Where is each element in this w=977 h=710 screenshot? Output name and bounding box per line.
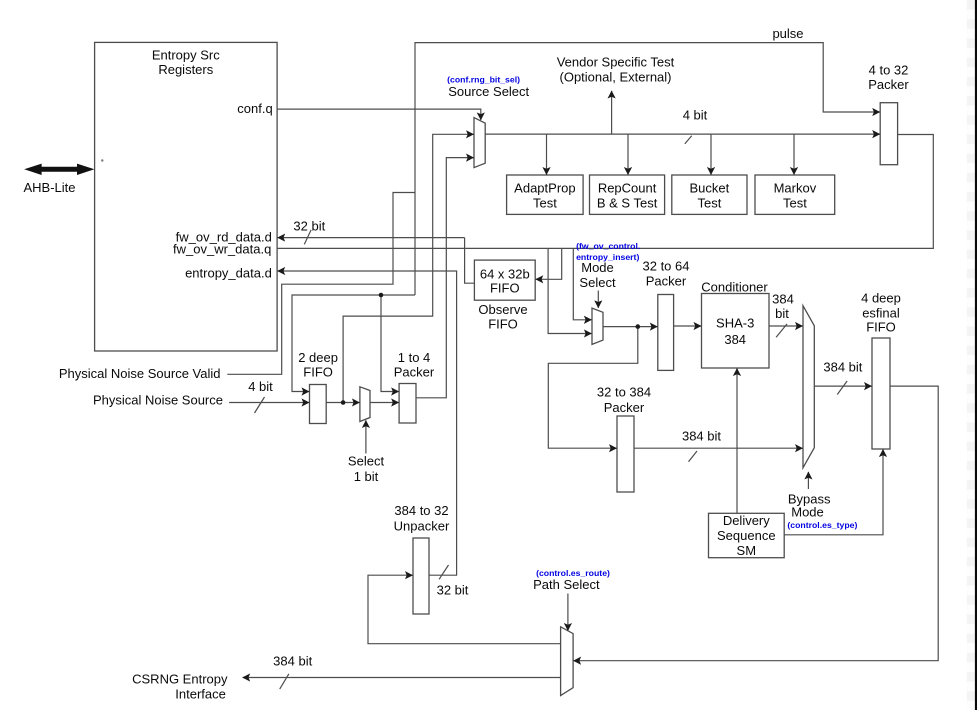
svg-text:Test: Test (533, 196, 557, 211)
svg-text:FIFO: FIFO (303, 365, 333, 380)
svg-text:1 to 4: 1 to 4 (398, 350, 431, 365)
svg-text:384 to 32: 384 to 32 (394, 503, 448, 518)
svg-text:4 bit: 4 bit (248, 379, 273, 394)
svg-text:Select: Select (348, 454, 385, 469)
svg-text:Registers: Registers (158, 62, 213, 77)
svg-text:Source Select: Source Select (448, 84, 529, 99)
svg-text:fw_ov_wr_data.q: fw_ov_wr_data.q (173, 242, 271, 257)
svg-text:(control.es_type): (control.es_type) (787, 520, 857, 530)
svg-text:FIFO: FIFO (490, 280, 520, 295)
svg-text:384 bit: 384 bit (273, 654, 312, 669)
svg-text:RepCount: RepCount (598, 181, 657, 196)
svg-text:Conditioner: Conditioner (701, 280, 768, 295)
svg-text:B & S Test: B & S Test (597, 196, 658, 211)
svg-text:32 to 64: 32 to 64 (643, 259, 690, 274)
svg-text:32 bit: 32 bit (437, 583, 469, 598)
svg-text:FIFO: FIFO (866, 320, 896, 335)
svg-text:32 bit: 32 bit (293, 219, 325, 234)
svg-text:Sequence: Sequence (717, 528, 776, 543)
svg-text:1 bit: 1 bit (354, 469, 379, 484)
svg-text:4 bit: 4 bit (683, 108, 708, 123)
svg-text:384 bit: 384 bit (823, 360, 862, 375)
svg-text:(fw_ov_control.: (fw_ov_control. (576, 241, 640, 251)
svg-text:Test: Test (783, 196, 807, 211)
svg-text:Packer: Packer (868, 77, 909, 92)
svg-text:4 to 32: 4 to 32 (869, 63, 909, 78)
svg-text:bit: bit (775, 306, 789, 321)
svg-text:Test: Test (697, 196, 721, 211)
svg-text:pulse: pulse (772, 26, 803, 41)
svg-text:2 deep: 2 deep (298, 350, 338, 365)
svg-text:32 to 384: 32 to 384 (597, 385, 651, 400)
svg-text:SHA-3: SHA-3 (716, 316, 754, 331)
svg-text:Select: Select (579, 275, 616, 290)
svg-text:Delivery: Delivery (723, 513, 770, 528)
svg-text:CSRNG Entropy: CSRNG Entropy (132, 672, 228, 687)
svg-text:SM: SM (737, 543, 757, 558)
svg-text:Physical Noise Source: Physical Noise Source (93, 393, 223, 408)
svg-text:384: 384 (724, 332, 746, 347)
svg-text:Packer: Packer (604, 400, 645, 415)
svg-text:Vendor Specific Test: Vendor Specific Test (557, 55, 675, 70)
svg-text:Unpacker: Unpacker (394, 519, 450, 534)
svg-text:(conf.rng_bit_sel): (conf.rng_bit_sel) (447, 75, 520, 85)
svg-text:Bucket: Bucket (690, 181, 730, 196)
svg-text:AHB-Lite: AHB-Lite (24, 180, 76, 195)
svg-text:FIFO: FIFO (488, 316, 518, 331)
svg-text:entropy_data.d: entropy_data.d (185, 266, 272, 281)
svg-text:384 bit: 384 bit (682, 429, 721, 444)
svg-text:384: 384 (772, 292, 794, 307)
svg-text:Mode: Mode (791, 505, 824, 520)
svg-text:Mode: Mode (581, 260, 614, 275)
svg-text:conf.q: conf.q (237, 101, 272, 116)
svg-text:Observe: Observe (478, 302, 527, 317)
svg-text:Packer: Packer (646, 274, 687, 289)
svg-text:Interface: Interface (175, 687, 226, 702)
svg-text:Packer: Packer (394, 365, 435, 380)
svg-text:(Optional, External): (Optional, External) (560, 70, 672, 85)
svg-text:Physical Noise Source Valid: Physical Noise Source Valid (59, 366, 221, 381)
svg-text:Markov: Markov (774, 181, 817, 196)
svg-text:4 deep: 4 deep (861, 291, 901, 306)
svg-text:AdaptProp: AdaptProp (514, 181, 575, 196)
svg-text:Path Select: Path Select (533, 577, 600, 592)
svg-text:esfinal: esfinal (862, 306, 900, 321)
svg-text:Entropy Src: Entropy Src (152, 48, 220, 63)
